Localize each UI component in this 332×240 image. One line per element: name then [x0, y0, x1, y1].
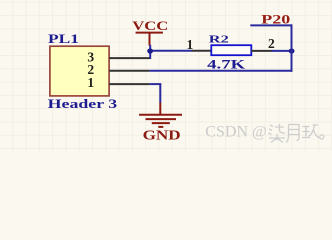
svg-text:VCC: VCC	[132, 19, 168, 33]
svg-text:GND: GND	[143, 128, 181, 143]
watermark character Jiu	[302, 125, 319, 138]
svg-text:P20: P20	[261, 12, 290, 26]
wire horizontal from VCC junction to resistor R2 pin 1	[150, 50, 191, 52]
power VCC symbol	[132, 19, 168, 46]
wire from R2 pin 2 to P20 vertical	[272, 50, 292, 52]
junction dot at VCC / pin3 / R2 node	[147, 48, 153, 53]
watermark full stop	[320, 135, 324, 139]
svg-text:CSDN @: CSDN @	[205, 124, 266, 141]
connector PL1 body	[50, 46, 109, 96]
wire from P20 vertical to pin 2	[149, 70, 292, 72]
wire from pin 1 to GND drop	[149, 83, 161, 85]
watermark character Qi	[269, 124, 286, 143]
svg-text:1: 1	[87, 75, 94, 90]
ground GND symbol	[139, 103, 182, 143]
svg-text:PL1: PL1	[48, 32, 79, 46]
svg-text:4.7K: 4.7K	[207, 57, 246, 72]
wire horizontal under P20 label	[250, 24, 292, 26]
resistor R2	[192, 45, 272, 55]
svg-text:R2: R2	[209, 33, 230, 45]
wire vertical P20 net	[291, 24, 293, 71]
pin 1 of PL1	[109, 83, 149, 85]
wire vertical from VCC stem to pin 3	[149, 45, 151, 59]
watermark character Yue	[286, 125, 299, 143]
svg-text:Header 3: Header 3	[48, 96, 118, 111]
pin 3 of PL1	[109, 57, 150, 59]
svg-text:1: 1	[187, 37, 194, 52]
junction dot at R2 / P20 node	[289, 48, 295, 53]
svg-text:2: 2	[268, 36, 275, 51]
wire vertical down to GND	[159, 84, 161, 103]
pin 2 of PL1	[109, 70, 149, 72]
